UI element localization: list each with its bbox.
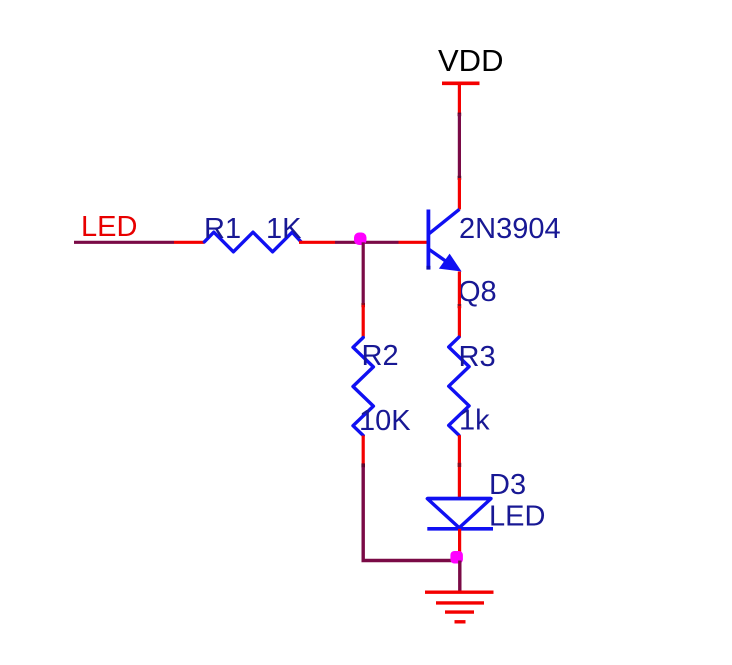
transistor collector stroke bbox=[429, 209, 459, 233]
svg-text:D3: D3 bbox=[489, 469, 526, 501]
label R3 bbox=[459, 341, 496, 373]
node junction dot B bbox=[450, 551, 463, 564]
ground bar 3 bbox=[445, 610, 474, 613]
value 10K bbox=[359, 405, 411, 437]
wire R3 top pin red bbox=[458, 306, 461, 338]
wire node to base maroon bbox=[335, 241, 399, 244]
wire emitter pin red bbox=[458, 272, 461, 306]
wire R3 bottom pin red bbox=[458, 435, 461, 463]
transistor Q2 base bar bbox=[426, 210, 430, 270]
wire end tick bbox=[458, 463, 462, 467]
resistor R3 bbox=[449, 337, 469, 435]
wire R2 top pin red bbox=[362, 305, 365, 338]
svg-text:LED: LED bbox=[489, 501, 545, 533]
wire end tick bbox=[458, 304, 462, 308]
diode D3 anode bar bbox=[427, 497, 491, 501]
wire diode cathode pin red bbox=[458, 529, 461, 556]
power symbol VDD bar bbox=[442, 82, 480, 86]
svg-text:2N3904: 2N3904 bbox=[459, 213, 561, 245]
wire collector pin red bbox=[458, 178, 461, 210]
svg-text:VDD: VDD bbox=[438, 43, 503, 78]
net label LED bbox=[81, 211, 137, 243]
wire collector pin red top bbox=[458, 83, 461, 114]
wire LED net maroon bbox=[74, 241, 174, 244]
ground bar 1 bbox=[425, 591, 494, 594]
wire end tick bbox=[458, 113, 462, 117]
wire base pin red bbox=[399, 241, 429, 244]
label Q8 bbox=[458, 276, 497, 308]
svg-text:1k: 1k bbox=[459, 405, 490, 437]
wire end tick bbox=[458, 176, 462, 180]
label LED bbox=[489, 501, 545, 533]
label R1 bbox=[204, 213, 241, 245]
wire node down maroon bbox=[362, 242, 365, 304]
diode D3 triangle bbox=[427, 499, 491, 528]
svg-text:1K: 1K bbox=[266, 213, 302, 245]
wire R1 right pin red bbox=[299, 241, 335, 244]
svg-text:R1: R1 bbox=[204, 213, 241, 245]
ground bar 2 bbox=[436, 601, 484, 604]
label D3 bbox=[489, 469, 526, 501]
wire end tick bbox=[361, 463, 365, 467]
wire end tick bbox=[361, 303, 365, 307]
label R2 bbox=[362, 340, 399, 372]
svg-text:R2: R2 bbox=[362, 340, 399, 372]
wire VDD to collector maroon bbox=[458, 114, 461, 178]
label 2N3904 bbox=[459, 213, 561, 245]
node junction dot A bbox=[354, 233, 367, 246]
transistor emitter stroke with arrow bbox=[429, 250, 461, 272]
wire R1 left pin red bbox=[174, 241, 205, 244]
value 1K bbox=[266, 213, 302, 245]
net label VDD bbox=[438, 43, 503, 78]
wire R2 to bottom rail maroon bbox=[363, 467, 453, 561]
wire R2 bottom pin red bbox=[362, 436, 365, 465]
resistor R2 bbox=[353, 338, 373, 436]
diode D3 cathode bar bbox=[427, 527, 493, 531]
wire node B to ground maroon bbox=[458, 561, 461, 593]
svg-text:10K: 10K bbox=[359, 405, 411, 437]
value 1k bbox=[459, 405, 490, 437]
resistor R1 bbox=[204, 232, 301, 252]
ground bar 4 bbox=[455, 620, 466, 623]
svg-text:R3: R3 bbox=[459, 341, 496, 373]
svg-text:Q8: Q8 bbox=[458, 276, 497, 308]
wire diode anode pin red bbox=[458, 467, 461, 499]
svg-text:LED: LED bbox=[81, 211, 137, 243]
